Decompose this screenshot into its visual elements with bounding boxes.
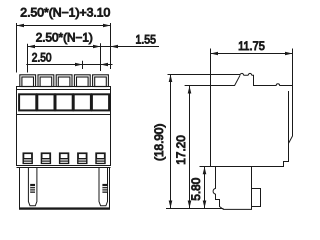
svg-text:2.50*(N−1)+3.10: 2.50*(N−1)+3.10 bbox=[20, 5, 110, 19]
opening 4 bbox=[74, 94, 91, 110]
pin 5 bbox=[93, 75, 109, 87]
contact 4 bbox=[77, 152, 87, 164]
dim 1.55 tail bbox=[111, 46, 160, 48]
side outline bbox=[211, 73, 293, 166]
svg-text:17.20: 17.20 bbox=[174, 135, 188, 165]
contact 3 bbox=[59, 152, 69, 164]
body bottom second line bbox=[17, 167, 111, 169]
side lower block bbox=[213, 167, 251, 210]
dim line pitch tail bbox=[26, 64, 100, 66]
side inner step line bbox=[211, 75, 241, 85]
contact 5 bbox=[95, 152, 105, 164]
svg-text:2.50*(N−1): 2.50*(N−1) bbox=[36, 31, 93, 45]
pin 3 bbox=[56, 75, 72, 87]
svg-text:(18.90): (18.90) bbox=[152, 124, 166, 161]
ext tick pin4 bbox=[82, 61, 84, 69]
svg-text:1.55: 1.55 bbox=[136, 32, 157, 46]
svg-text:2.50: 2.50 bbox=[32, 50, 52, 64]
pin 2 bbox=[38, 75, 54, 87]
latch left grip bbox=[30, 184, 35, 193]
latch left channel bbox=[28, 168, 37, 206]
side inner right line bbox=[288, 91, 290, 162]
dim line 18.90 bbox=[170, 75, 172, 209]
ext line left body bbox=[16, 23, 18, 73]
svg-text:11.75: 11.75 bbox=[238, 39, 265, 53]
ext line top (y74.5) bbox=[168, 74, 211, 76]
contact 2 bbox=[41, 152, 51, 164]
opening 3 bbox=[56, 94, 73, 110]
ext line side left bbox=[210, 49, 212, 75]
body outline bbox=[17, 87, 111, 166]
dim line 5.80 bbox=[204, 167, 206, 208]
dim line 11.75 bbox=[211, 53, 293, 55]
ext line 17.20 top (y85.5) bbox=[185, 85, 211, 87]
rail line bbox=[17, 89, 111, 91]
dim line pin1-pin5 bbox=[28, 46, 111, 48]
pin 4 bbox=[74, 75, 90, 87]
ext line right body bbox=[110, 23, 112, 69]
ext line pin1 bbox=[27, 44, 29, 73]
bottom band bbox=[19, 207, 110, 209]
line under openings bbox=[17, 114, 111, 116]
side foot bbox=[252, 189, 261, 207]
latch right grip bbox=[102, 184, 107, 193]
ext line pin5 bbox=[100, 43, 102, 71]
latch right channel bbox=[99, 168, 108, 206]
svg-text:5.80: 5.80 bbox=[189, 177, 203, 200]
opening 5 bbox=[92, 94, 109, 110]
opening 1 bbox=[19, 94, 36, 110]
ext line side right bbox=[292, 49, 294, 86]
dim pitch right tail bbox=[101, 64, 113, 66]
dim line 17.20 bbox=[189, 86, 191, 208]
ext line 5.80 top (y166.5) bbox=[200, 166, 211, 168]
opening 2 bbox=[37, 94, 54, 110]
dim line overall width bbox=[17, 25, 111, 27]
bottom section bbox=[20, 168, 110, 210]
pin 1 bbox=[20, 75, 36, 87]
contact 1 bbox=[23, 152, 33, 164]
ext line bottom (y208.5) bbox=[166, 208, 224, 210]
